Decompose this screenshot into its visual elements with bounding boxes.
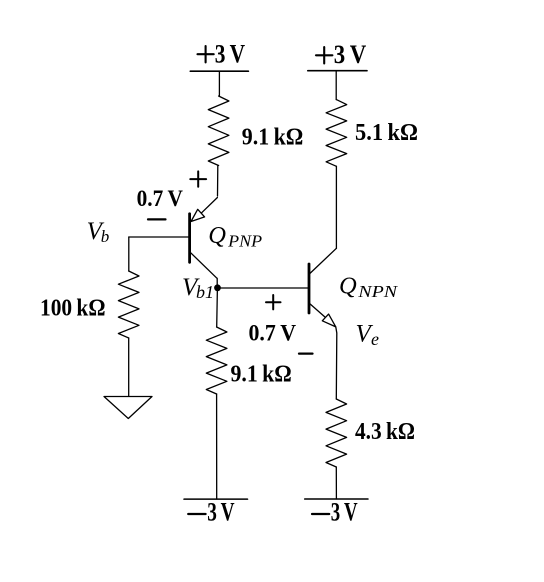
- wire Vb node down: [128, 237, 130, 271]
- svg-text:b: b: [101, 227, 110, 246]
- Q_NPN emitter arrowhead (open, pointing out): [322, 314, 336, 327]
- svg-text:NPN: NPN: [357, 282, 398, 301]
- svg-text:9.1 kΩ: 9.1 kΩ: [231, 361, 292, 387]
- svg-text:e: e: [371, 329, 379, 349]
- svg-text:b1: b1: [196, 282, 214, 302]
- wire: [216, 394, 218, 499]
- transistor Q_PNP base bar: [188, 214, 191, 262]
- Q_PNP emitter lead: [201, 198, 217, 214]
- wire: [335, 71, 337, 100]
- ground: [104, 397, 152, 419]
- +3V supply rail (left): [190, 70, 248, 72]
- node Vb1 junction dot: [214, 284, 221, 291]
- Q_NPN collector lead: [310, 248, 336, 273]
- plus sign (PNP emitter-base): [190, 171, 206, 186]
- svg-text:3 V: 3 V: [331, 498, 358, 527]
- wire: [335, 467, 337, 499]
- label -3V (right): [312, 513, 329, 515]
- svg-text:0.7 V: 0.7 V: [137, 186, 184, 211]
- minus sign (NPN emitter side): [299, 353, 313, 355]
- svg-text:100 kΩ: 100 kΩ: [40, 296, 106, 322]
- wire: [217, 166, 219, 197]
- svg-text:4.3 kΩ: 4.3 kΩ: [355, 419, 415, 445]
- transistor Q_NPN base bar: [308, 264, 311, 313]
- svg-text:9.1 kΩ: 9.1 kΩ: [242, 125, 303, 151]
- svg-text:Q: Q: [339, 273, 357, 300]
- resistor R 4.3k: [326, 399, 347, 467]
- Q_PNP collector lead: [191, 253, 218, 288]
- resistor R 9.1k (lower left branch): [206, 327, 227, 394]
- label -3V (left): [188, 513, 205, 515]
- resistor R 9.1k (upper left branch): [208, 96, 229, 166]
- +3V supply rail (right): [308, 70, 367, 72]
- svg-text:Q: Q: [208, 222, 226, 249]
- svg-text:3 V: 3 V: [215, 40, 246, 69]
- resistor R 100k: [118, 271, 139, 338]
- wire: [218, 71, 220, 96]
- minus sign (PNP base side): [148, 218, 166, 220]
- wire Vb1 down: [216, 288, 219, 327]
- svg-text:PNP: PNP: [227, 232, 262, 251]
- svg-text:5.1 kΩ: 5.1 kΩ: [355, 120, 418, 146]
- resistor R 5.1k: [326, 100, 347, 167]
- plus sign (NPN base-emitter): [266, 295, 281, 309]
- wire: [335, 166, 337, 248]
- wire Vb1 to NPN base: [218, 287, 308, 289]
- Q_NPN emitter lead: [310, 304, 326, 318]
- svg-text:3 V: 3 V: [334, 40, 367, 69]
- -3V rail (right): [305, 498, 368, 500]
- label +3V (left): [198, 46, 214, 62]
- wire Ve down: [336, 327, 337, 399]
- Q_PNP emitter arrowhead (open, pointing into base): [191, 209, 205, 221]
- svg-text:3 V: 3 V: [207, 498, 235, 527]
- Q_PNP base wire: [129, 236, 188, 238]
- wire: [128, 338, 130, 398]
- label +3V (right): [316, 47, 332, 63]
- svg-text:0.7 V: 0.7 V: [249, 321, 297, 346]
- -3V rail (left): [184, 498, 248, 500]
